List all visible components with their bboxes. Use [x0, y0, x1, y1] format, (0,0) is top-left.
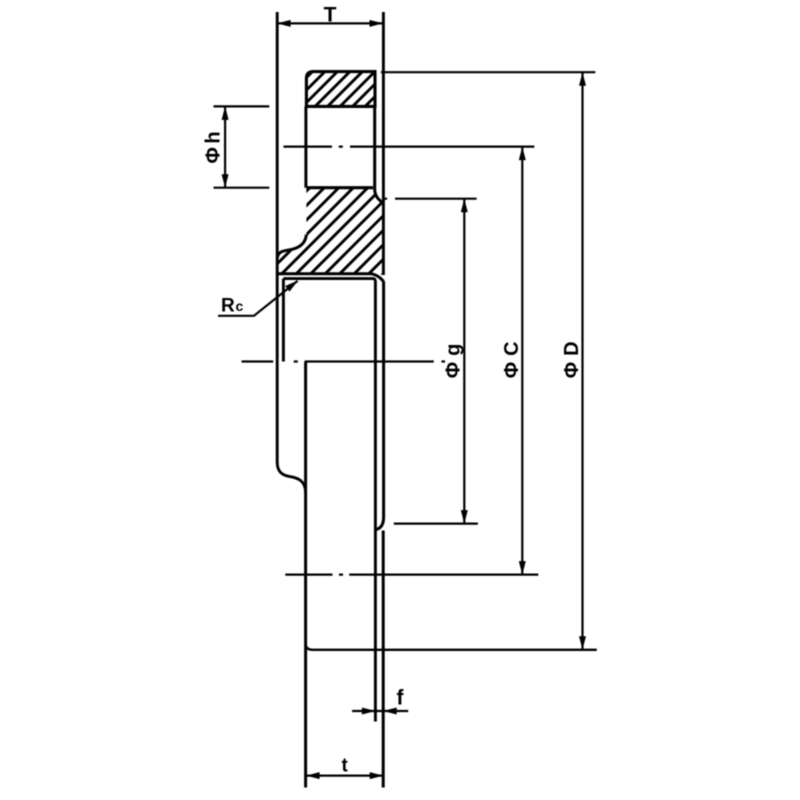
- flange back face (with T extension above) and hub fillet to pipe: [277, 12, 305, 493]
- dia D top extension line: [381, 71, 595, 73]
- dia g dimension line: [463, 199, 465, 524]
- hatch pattern: flange ring section (top box): [272, 66, 406, 112]
- t dimension line: [306, 774, 383, 776]
- dia h dimension arrows: [222, 106, 229, 120]
- dia D dimension line: [581, 72, 583, 650]
- hub left ogee curve (section boundary): [277, 235, 306, 258]
- raised face corner fillet (upper): [375, 190, 384, 204]
- svg-text:ΦD: ΦD: [561, 335, 583, 378]
- bolt hole left edge: [304, 106, 307, 187]
- dia D dimension arrows: [579, 72, 586, 86]
- pipe outer wall (left): [304, 362, 307, 788]
- dia h bottom extension line: [214, 187, 270, 189]
- hub section top edge: [306, 186, 373, 189]
- dia h top extension line: [214, 105, 270, 107]
- svg-text:t: t: [342, 756, 349, 777]
- T dimension line with arrows: [277, 22, 383, 24]
- bolt hole right edge: [373, 106, 376, 190]
- dia g dimension arrows: [461, 199, 468, 213]
- dia C dimension line: [521, 147, 523, 575]
- svg-text:c: c: [236, 298, 244, 314]
- svg-text:R: R: [221, 295, 235, 316]
- f dimension arrows (outside, pointing inward): [362, 708, 376, 715]
- Rc leader line with underline: [218, 281, 298, 316]
- svg-text:Φg: Φg: [443, 338, 465, 379]
- svg-text:f: f: [397, 687, 405, 710]
- svg-text:T: T: [324, 3, 337, 26]
- flange ring outline (top box, rounded top-left corner): [306, 72, 375, 107]
- socket bore line (upper horizontal) with corner arc to raised face: [277, 274, 383, 282]
- dia g top extension line: [384, 198, 476, 200]
- through bore line (lower horizontal) + flange face edge down to f extension: [283, 279, 375, 722]
- dia C dimension arrows: [519, 147, 526, 161]
- bolt hole center line (dash-dot, lower): [285, 573, 538, 575]
- raised face front edge, upper (with T extension above): [382, 12, 385, 275]
- svg-text:ΦC: ΦC: [501, 335, 523, 378]
- t dimension arrows: [306, 772, 320, 779]
- T dimension arrows: [277, 20, 291, 27]
- flange OD lower edge + dia D extension line (with corner fillet): [306, 643, 597, 650]
- f dimension line: [352, 710, 408, 712]
- dia h dimension line: [224, 106, 226, 187]
- dia g bottom extension line: [394, 522, 478, 524]
- svg-text:Φh: Φh: [203, 128, 225, 164]
- bolt hole center line (dash-dot, upper): [284, 146, 535, 148]
- Rc leader arrowhead: [285, 281, 298, 292]
- bore edge vertical (left, upper half): [282, 279, 285, 362]
- main axis center line (dash-dot): [242, 360, 446, 362]
- hatch pattern: flange hub section (middle): [208, 182, 476, 290]
- raised face / pipe right edge, lower: [382, 531, 385, 788]
- raised face front edge, mid (ends with fillet at gasket dia): [376, 281, 383, 529]
